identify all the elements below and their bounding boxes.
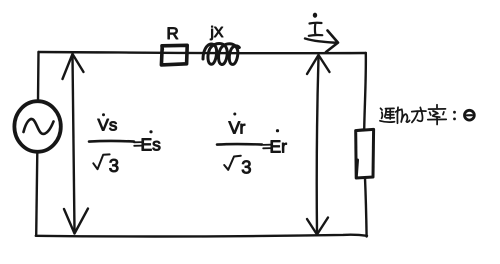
equals Er [263, 129, 287, 156]
svg-text:Vs: Vs [98, 116, 118, 135]
label jX [210, 25, 224, 41]
load box (right) [356, 129, 374, 178]
svg-text:Vr: Vr [229, 118, 246, 138]
label Vs with dot [98, 113, 118, 134]
svg-text:Es: Es [141, 135, 162, 155]
voltage arrow Vs (double headed, left) [63, 54, 89, 234]
label sqrt3 left [93, 154, 119, 176]
label sqrt3 right [224, 156, 251, 178]
wire top [39, 52, 366, 53]
fraction bar right [217, 143, 262, 146]
svg-text:3: 3 [241, 157, 251, 178]
label Vr with dot [229, 113, 246, 138]
inductor L1 coil [203, 43, 239, 64]
current label I with dot [309, 13, 323, 36]
fullwidth colon [453, 111, 456, 121]
svg-text:R: R [167, 24, 179, 43]
wire left [36, 52, 38, 236]
current arrow [305, 31, 338, 53]
svg-text:jX: jX [210, 25, 224, 41]
equals Es [134, 130, 161, 154]
kanji 力 [412, 107, 426, 122]
svg-text:Er: Er [270, 137, 288, 157]
fraction bar left [89, 140, 134, 143]
kana re [396, 107, 410, 123]
kanji 遅 [380, 108, 395, 122]
kanji 率 [428, 105, 446, 125]
theta symbol [465, 110, 475, 120]
wire right [364, 53, 366, 237]
wire bottom [36, 235, 367, 237]
voltage arrow Vr (double headed, right) [307, 55, 330, 235]
resistor R1 box [161, 45, 187, 65]
label R [167, 24, 179, 43]
svg-text:3: 3 [109, 155, 119, 176]
ac source G1 [14, 101, 60, 152]
